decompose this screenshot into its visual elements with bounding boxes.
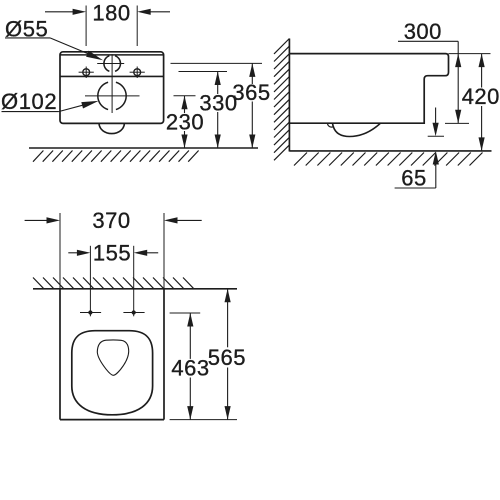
front trap arc (99, 123, 124, 133)
label O55 leader arrow (86, 51, 103, 61)
side bottom edge extension (445, 122, 469, 124)
plan wall line (33, 288, 237, 290)
front floor hatching (33, 151, 199, 162)
svg-text:300: 300 (404, 19, 442, 44)
plan left fixing hole dot (88, 310, 92, 314)
dim 230 ext line (174, 95, 196, 97)
dim 330 arrows (215, 72, 221, 86)
dim 180 line right (150, 11, 171, 13)
dim 65 upper arrow (433, 123, 439, 137)
label O55 underline (5, 37, 50, 39)
vertical centerline through holes (111, 54, 113, 113)
dim 65 ext line (428, 135, 444, 137)
dim 180 ext left (85, 6, 87, 47)
svg-text:230: 230 (166, 110, 204, 135)
dim 230 arrows (181, 96, 187, 110)
dim 155 line right (146, 252, 158, 254)
front view body outline (60, 52, 164, 124)
dim 370 line right (176, 219, 202, 221)
svg-text:370: 370 (92, 208, 130, 233)
svg-text:65: 65 (401, 165, 426, 190)
plan drain shape (97, 340, 128, 375)
svg-text:155: 155 (93, 241, 131, 266)
plan bowl outline (72, 331, 153, 415)
right fixing hole crosshair (130, 71, 145, 73)
plan right hole centerline (123, 312, 144, 314)
hole O102 circle (98, 82, 126, 109)
dim 155 arrow right (134, 250, 148, 256)
left fixing hole crosshair (79, 71, 94, 73)
dim 180 arrow right (137, 9, 151, 15)
dim 65 lower arrow (433, 151, 439, 165)
dim 370 ext right (163, 213, 165, 289)
dim 370 arrow right (164, 217, 178, 223)
dim 65 leader line (395, 187, 436, 189)
svg-text:420: 420 (462, 84, 500, 109)
hole O55 circle (104, 56, 121, 72)
front body divider line (60, 75, 164, 77)
dim 65 lower line (435, 163, 437, 188)
dim 370 ext left (59, 213, 61, 289)
dim 155 ext right (133, 246, 135, 316)
dim 155 ext left (89, 246, 91, 316)
plan body right edge (163, 289, 165, 420)
plan body left edge (59, 289, 61, 420)
dim 300 line (457, 41, 459, 123)
svg-text:365: 365 (232, 80, 270, 105)
dim 370 line left (25, 219, 48, 221)
side floor line (289, 150, 491, 152)
left fixing hole (83, 69, 90, 76)
svg-text:180: 180 (92, 1, 130, 26)
label O102 leader arrow (81, 101, 98, 109)
dim 330 line (217, 72, 219, 95)
label O102 leader (59, 104, 86, 111)
hole O102 horizontal centerline (85, 95, 140, 97)
plan right fixing hole dot (132, 310, 136, 314)
svg-text:Ø102: Ø102 (1, 89, 57, 114)
dim 463 arrows (187, 313, 193, 327)
dim 463 top ext line (170, 312, 201, 314)
dim 180 ext right (136, 6, 138, 47)
dim 365 arrows (249, 63, 255, 77)
side body outline (289, 54, 448, 124)
dim 420 arrows (479, 54, 485, 68)
dim 230 line (184, 96, 186, 113)
dim 180 arrow left (73, 9, 87, 15)
side wall hatching (274, 39, 289, 161)
side top edge extension (449, 53, 491, 55)
dim 565 arrows (225, 289, 231, 303)
dim 300 leader line (398, 40, 458, 42)
plan body bottom edge (60, 419, 164, 421)
dim 65 upper line (435, 108, 437, 125)
ext line at O55 height (171, 62, 263, 64)
dim 300 arrows (455, 54, 461, 68)
svg-text:463: 463 (171, 356, 209, 381)
label O102 underline (2, 111, 59, 113)
dim 565 line (227, 289, 229, 348)
front floor line (29, 147, 258, 149)
side trap small curl (327, 123, 333, 127)
dim 370 arrow left (47, 217, 61, 223)
hole O55 horizontal centerline (97, 63, 124, 65)
right fixing hole (134, 69, 141, 76)
dim 180 line left (45, 11, 74, 13)
dim 420 line (481, 54, 483, 88)
plan bottom ext line (170, 419, 237, 421)
ext line at fixing hole height (179, 71, 228, 73)
side wall line (288, 39, 290, 152)
dim 365 line (251, 63, 253, 84)
plan wall hatching (33, 278, 194, 289)
plan left hole centerline (80, 312, 101, 314)
svg-text:565: 565 (208, 345, 246, 370)
side trap bump (333, 123, 381, 136)
dim 155 line left (68, 252, 78, 254)
label O55 leader (50, 38, 92, 56)
dim 463 line (189, 313, 191, 359)
front body top inner line (60, 54, 163, 56)
side floor hatching (294, 153, 483, 166)
dim 155 arrow left (77, 250, 91, 256)
